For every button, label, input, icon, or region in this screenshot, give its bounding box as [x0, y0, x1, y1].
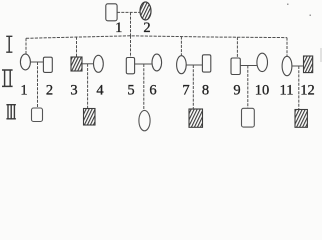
svg-text:12: 12 — [300, 83, 315, 99]
wire drop to II-7 — [180, 37, 182, 57]
individual II-10 (female) — [257, 53, 268, 71]
wire drop couple II-3/4 to III-2 — [87, 64, 89, 109]
individual II-8 (male) — [202, 55, 210, 72]
wire marriage line II-9 II-10 — [240, 65, 257, 67]
svg-text:1: 1 — [20, 83, 27, 99]
individual III-2 (affected male) — [84, 109, 96, 126]
individual II-9 (male) — [231, 58, 240, 75]
svg-text:3: 3 — [70, 83, 77, 99]
wire drop couple II-5/6 to III-3 — [143, 64, 145, 111]
individual I-2 (affected female) — [140, 2, 151, 20]
individual III-5 (male) — [242, 108, 255, 127]
svg-text:10: 10 — [255, 83, 270, 99]
individual III-3 (female) — [139, 110, 150, 130]
individual I-1 (male) — [106, 4, 117, 21]
wire drop to II-9 — [236, 37, 238, 58]
individual II-5 (male) — [126, 58, 134, 74]
scan noise specks — [287, 4, 322, 63]
individual II-6 (female) — [152, 54, 162, 71]
generation label III — [6, 105, 16, 119]
individual II-12 (affected male) — [304, 56, 313, 73]
svg-text:7: 7 — [182, 83, 189, 99]
wire marriage line II-11 II-12 — [292, 65, 304, 67]
wire drop couple II-1/2 to III-1 — [37, 62, 39, 108]
wire marriage line II-7 II-8 — [186, 64, 202, 66]
wire descent from I couple — [130, 12, 132, 37]
svg-text:9: 9 — [233, 83, 240, 99]
generation label I — [6, 36, 12, 52]
wire drop couple II-11/12 to III-6 — [298, 66, 300, 110]
wire drop couple II-7/8 to III-4 — [192, 65, 194, 109]
individual II-1 (female) — [20, 54, 30, 70]
wire drop to II-5 — [130, 36, 132, 58]
wire drop to II-3 — [76, 37, 78, 57]
svg-text:1: 1 — [115, 20, 122, 36]
svg-text:5: 5 — [127, 83, 134, 99]
wire marriage line II-5 II-6 — [135, 63, 152, 65]
generation label II — [2, 70, 13, 86]
individual II-11 (female) — [282, 56, 292, 75]
individual II-7 (female) — [177, 56, 187, 74]
individual II-4 (female) — [94, 55, 104, 72]
svg-text:2: 2 — [46, 83, 53, 99]
individual III-4 (affected male) — [189, 109, 203, 127]
svg-text:11: 11 — [280, 83, 294, 99]
individual II-3 (affected male) — [71, 57, 82, 71]
svg-text:6: 6 — [149, 83, 156, 99]
individual III-1 (male) — [32, 108, 43, 122]
wire marriage line II-1 II-2 — [30, 61, 43, 63]
wire sibship line — [26, 36, 287, 39]
wire drop to II-1 — [25, 38, 27, 54]
svg-text:8: 8 — [202, 83, 209, 99]
svg-text:2: 2 — [143, 20, 150, 36]
individual III-6 (affected male) — [295, 110, 307, 128]
individual II-2 (male) — [43, 57, 52, 72]
svg-text:4: 4 — [96, 83, 104, 99]
wire marriage line II-3 II-4 — [82, 63, 94, 65]
wire marriage line I-1 to I-2 — [117, 11, 140, 13]
wire drop to II-11 — [286, 38, 288, 57]
wire drop couple II-9/10 to III-5 — [247, 66, 249, 109]
